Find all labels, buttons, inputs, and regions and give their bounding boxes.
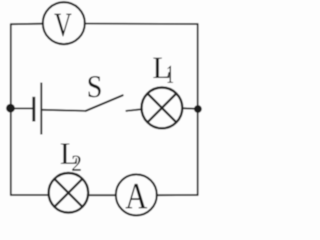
wire battery to switch bbox=[43, 110, 86, 111]
wire node to battery bbox=[11, 107, 33, 109]
wire bottom-left to lamp L2 bbox=[11, 194, 49, 196]
node left junction bbox=[6, 104, 15, 113]
lamp L1 cross bbox=[148, 94, 177, 123]
battery cell: short negative plate bbox=[32, 97, 35, 122]
lamp L1 circle bbox=[142, 88, 183, 129]
node right junction bbox=[194, 105, 202, 113]
wire lamp L1 to right node bbox=[182, 107, 197, 110]
label L2 letter L bbox=[61, 144, 77, 164]
wire left vertical bbox=[10, 24, 12, 195]
label L1 letter L bbox=[153, 58, 169, 78]
ammeter circle bbox=[116, 174, 157, 215]
wire switch contact to lamp L1 bbox=[126, 109, 141, 111]
battery cell: long positive plate bbox=[40, 83, 42, 135]
lamp L2 circle bbox=[49, 173, 89, 213]
op: voltmeter U circle bbox=[43, 2, 85, 44]
label L1 subscript 1 bbox=[167, 66, 173, 83]
switch S blade bbox=[86, 95, 123, 111]
ammeter letter A bbox=[126, 184, 148, 208]
lamp L2 cross bbox=[54, 179, 82, 207]
wire lamp L2 to ammeter bbox=[88, 194, 116, 196]
wire right vertical bbox=[197, 24, 199, 195]
wire top-left to voltmeter bbox=[11, 23, 43, 26]
wire voltmeter to top-right bbox=[85, 23, 198, 25]
label L2 subscript 2 bbox=[72, 156, 80, 171]
voltmeter letter V bbox=[54, 14, 71, 37]
wire ammeter to bottom-right bbox=[157, 194, 198, 196]
label S bbox=[89, 76, 101, 97]
